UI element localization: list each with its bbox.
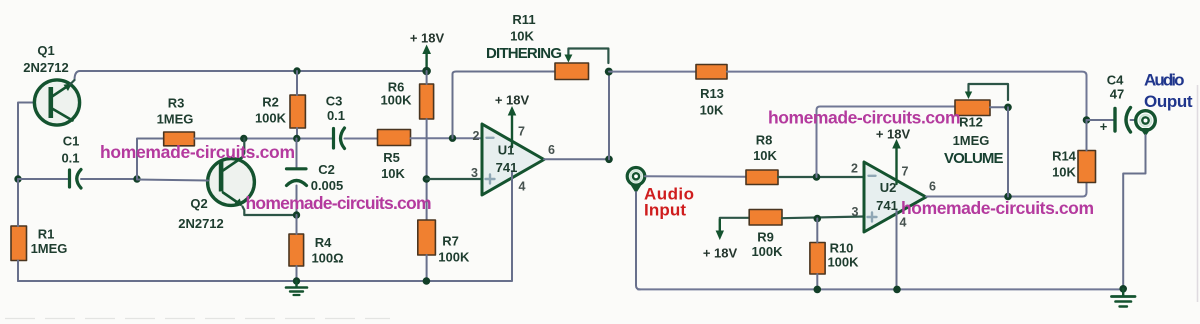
node: U1 output corner junction (605, 156, 613, 164)
node: output wire / R12 branch junction (1004, 193, 1012, 201)
svg-text:7: 7 (902, 165, 909, 179)
wire: dithering feedback from pin-2 node up and right to R11 (453, 72, 556, 139)
capacitor C3 0.1 (334, 128, 345, 149)
svg-text:R7: R7 (442, 234, 459, 249)
wire: R2 bottom to collector net (296, 128, 298, 139)
resistor R9 100K (749, 210, 782, 226)
svg-text:VOLUME: VOLUME (944, 150, 1004, 167)
svg-text:7: 7 (518, 125, 525, 139)
wire: junction up to R3 left end (137, 139, 164, 180)
wire: right section bottom ground rail (638, 288, 1123, 290)
svg-text:2: 2 (473, 129, 480, 143)
op-amp U1 741 (482, 124, 544, 195)
node: R3 left / Q2 base junction (133, 175, 140, 182)
resistor R13 10K (696, 65, 727, 80)
transistor Q2 2N2712 (208, 158, 255, 207)
svg-text:C2: C2 (318, 162, 335, 177)
node: R9 / R10 / U2 pin 3 junction (814, 215, 822, 223)
wire: rail to R2 top (296, 71, 298, 95)
capacitor C4 47 (1115, 108, 1131, 133)
potentiometer R11 10K DITHERING (555, 49, 608, 80)
svg-text:10K: 10K (510, 29, 534, 44)
wire: junction to U1 pin 3 (426, 178, 482, 180)
transistor Q1 2N2712 (34, 80, 79, 125)
wire: R4 bottom to ground rail (296, 266, 298, 281)
node: R6 / R7 / U1 pin 3 junction (423, 175, 431, 183)
svg-text:R4: R4 (315, 235, 332, 250)
pin 4 of U2 wire down to ground rail (896, 210, 898, 289)
resistor R4 100ohm (289, 234, 304, 266)
node: R10 / ground rail junction (814, 286, 822, 294)
node: R4 / ground rail junction (293, 277, 300, 284)
+18V supply arrow on rail (422, 45, 431, 72)
svg-text:1MEG: 1MEG (31, 241, 68, 256)
svg-text:3: 3 (852, 205, 859, 219)
svg-text:1MEG: 1MEG (157, 112, 194, 127)
svg-text:R3: R3 (168, 96, 185, 111)
svg-text:homemade-circuits.com: homemade-circuits.com (768, 108, 961, 128)
wire: rail node to R6 top (426, 71, 428, 84)
node: right ground rail / output drop junction (1119, 285, 1127, 293)
svg-text:0.1: 0.1 (61, 151, 79, 166)
svg-text:2: 2 (851, 162, 858, 176)
svg-text:100K: 100K (255, 111, 287, 126)
svg-text:R9: R9 (757, 230, 774, 245)
svg-text:4: 4 (519, 180, 526, 194)
wire: output node up to R11 right terminal (608, 72, 610, 160)
connector: Audio Output jack (1136, 111, 1156, 137)
svg-text:DITHERING: DITHERING (486, 45, 562, 62)
wire: R13 right to output mixing node (long top run) (727, 72, 1087, 120)
potentiometer R12 1MEG VOLUME (955, 84, 1008, 116)
capacitor C1 0.1 (70, 170, 82, 189)
node: R11 right / wiper / output junction (605, 68, 613, 76)
wire: input jack ground side down to right bottom rail (636, 192, 640, 289)
wire: C3 right plate to R5 (345, 138, 378, 140)
resistor R7 100K (418, 220, 436, 255)
svg-text:2N2712: 2N2712 (178, 216, 224, 231)
svg-text:R5: R5 (383, 150, 400, 165)
svg-text:+ 18V: + 18V (876, 127, 911, 142)
svg-text:6: 6 (929, 179, 936, 193)
wire: Q1 base lead from left rail (18, 103, 35, 180)
resistor R6 100K (420, 84, 434, 119)
svg-text:Audio: Audio (1144, 71, 1185, 90)
svg-text:C3: C3 (326, 94, 343, 109)
resistor R5 10K (378, 130, 411, 146)
wire: U2 output pin 6 to R14 bottom corner (926, 181, 1087, 197)
svg-text:100Ω: 100Ω (311, 251, 343, 266)
node: C1/R1 junction on Q1 base net (14, 175, 21, 182)
svg-text:R12: R12 (959, 115, 983, 130)
svg-text:47: 47 (1110, 87, 1124, 102)
node: rail end / R6 top junction (422, 67, 431, 76)
svg-text:100K: 100K (827, 255, 859, 270)
wire: C1 right plate to Q2 base junction (81, 178, 137, 180)
pin 7 of U2 with +18V arrow (892, 139, 901, 184)
node: R3/Q2 collector junction (240, 135, 247, 142)
svg-text:10K: 10K (381, 166, 405, 181)
op-amp U2 741 (864, 162, 926, 232)
svg-text:R14: R14 (1052, 149, 1077, 164)
wire: R3 right end to Q2 collector junction and on to R2 bottom junction and C3 (194, 138, 333, 140)
svg-text:+ 18V: + 18V (410, 31, 445, 46)
wire: Q2 base stub from junction (137, 180, 208, 181)
svg-text:100K: 100K (380, 93, 412, 108)
wire: junction down to C2 top plate (296, 139, 298, 168)
wire: emitter node down to R4 top (296, 215, 298, 234)
scan artifact: faint right edge line (1197, 85, 1199, 302)
resistor R3 1MEG (164, 132, 195, 146)
wire: R7 bottom to ground rail (426, 255, 428, 281)
svg-text:741: 741 (876, 198, 898, 213)
wire: R6 bottom down to pin-3 node (crosses pin-2 wire) (426, 119, 428, 220)
wire: Q2 collector up to R3/R2 net (242, 139, 244, 158)
wire: R11 node to R13 left (609, 71, 696, 73)
node: output mixing node (R13/R14/C4) (1083, 116, 1091, 124)
ground symbol right (1112, 289, 1136, 307)
svg-text:1MEG: 1MEG (953, 133, 990, 148)
resistor R14 10K (1078, 151, 1096, 183)
pin 4 of U1 wire down to ground rail (511, 171, 513, 281)
svg-text:2N2712: 2N2712 (23, 60, 69, 75)
wire: R12 junction down to output wire (1007, 107, 1009, 196)
wire: left section bottom ground rail (18, 280, 512, 282)
svg-text:homemade-circuits.com: homemade-circuits.com (901, 198, 1094, 218)
wire: R10 bottom to ground rail (816, 274, 818, 289)
svg-text:R2: R2 (262, 95, 279, 110)
wire: R5 right to U1 pin 2 (crosses R6/R7 branch) (411, 137, 483, 139)
resistor R2 100K (290, 95, 305, 128)
wire: mixing node to C4 left plate (1087, 119, 1114, 121)
wire: Q2 emitter down and right to C2/R4 node (243, 207, 297, 216)
wire: mixing node down to R14 top (1086, 120, 1088, 151)
wire: R1 bottom to left bottom rail (17, 261, 19, 282)
node: R12 right / wiper junction (1004, 104, 1012, 112)
wire: +18V corner to R9 left (720, 217, 749, 219)
resistor R1 1MEG (11, 226, 27, 261)
svg-text:R11: R11 (512, 12, 535, 27)
svg-text:Q1: Q1 (37, 43, 54, 58)
wire: R8 right to U2 pin 2 (778, 176, 864, 178)
node: R2 bottom / C2 top junction (293, 135, 300, 142)
svg-text:homemade-circuits.com: homemade-circuits.com (246, 193, 432, 213)
node: U2 pin 4 / ground rail junction (893, 286, 901, 294)
wire: U1 output pin 6 to corner node (544, 158, 609, 160)
wire: C4 right plate to output jack (1131, 119, 1137, 121)
svg-text:10K: 10K (753, 148, 777, 163)
svg-text:U1: U1 (498, 143, 515, 158)
connector: Audio Input jack (627, 168, 645, 194)
svg-text:U2: U2 (880, 180, 897, 195)
svg-text:Ouput: Ouput (1144, 92, 1193, 111)
wire: R9 right to U2 pin 3 (782, 217, 864, 219)
svg-text:C4: C4 (1107, 73, 1124, 88)
node: R8 / feedback / U2 pin 2 junction (813, 173, 821, 181)
svg-text:R1: R1 (38, 227, 55, 242)
ground symbol left (286, 281, 307, 295)
capacitor C2 0.005 (287, 169, 307, 186)
svg-text:10K: 10K (700, 103, 724, 118)
svg-text:0.005: 0.005 (311, 178, 344, 193)
resistor R8 10K (746, 170, 778, 185)
wire: R12 right terminal to wiper junction (990, 106, 1008, 108)
svg-text:0.1: 0.1 (327, 108, 345, 123)
scan artifact: faint bottom line (5, 318, 390, 320)
wire: pin-3 node down to R10 top (816, 219, 818, 243)
wire: input jack to R8 left (645, 175, 746, 178)
wire: base node down to R1 top (17, 179, 19, 226)
node: R5 / feedback junction at U1 pin 2 (449, 135, 456, 142)
svg-text:100K: 100K (438, 250, 470, 265)
svg-text:741: 741 (496, 160, 518, 175)
wire: base node to C1 left plate (18, 178, 68, 180)
svg-text:+: + (1100, 119, 1108, 134)
svg-text:Input: Input (644, 201, 686, 220)
svg-text:R8: R8 (756, 133, 773, 148)
resistor R10 100K (810, 243, 825, 275)
+18V supply arrow (down) at R9 (716, 219, 724, 240)
svg-text:R10: R10 (830, 241, 854, 256)
node: Q2 emitter / C2 / R4 junction (293, 211, 300, 218)
svg-text:10K: 10K (1052, 165, 1076, 180)
svg-text:Q2: Q2 (190, 196, 207, 211)
svg-text:homemade-circuits.com: homemade-circuits.com (100, 142, 295, 162)
svg-text:3: 3 (471, 166, 478, 180)
svg-text:6: 6 (548, 143, 555, 157)
wire: feedback riser from pin-2 node to R12 left (817, 107, 956, 178)
svg-text:+ 18V: + 18V (495, 93, 530, 108)
svg-text:+ 18V: + 18V (703, 246, 738, 261)
svg-text:R13: R13 (700, 86, 724, 101)
node: R7 / ground rail junction (423, 277, 431, 285)
pin 7 of U1 with +18V arrow (508, 106, 517, 147)
wire: C2 bottom to emitter node (296, 186, 298, 216)
svg-text:C1: C1 (63, 134, 80, 149)
wire: +18V supply rail top-left (Q1 collector to R6 node) (75, 71, 427, 80)
svg-text:100K: 100K (751, 244, 783, 259)
wire: output jack down with jog to ground node (1123, 135, 1145, 289)
node: +18V rail / R2 top (293, 67, 300, 74)
